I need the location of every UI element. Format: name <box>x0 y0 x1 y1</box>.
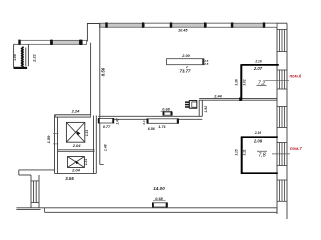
svg-text:2.07: 2.07 <box>253 66 263 71</box>
svg-text:3.11: 3.11 <box>243 149 247 155</box>
svg-text:пом.6: пом.6 <box>290 73 302 78</box>
svg-text:1.31: 1.31 <box>84 159 88 165</box>
svg-text:3.36: 3.36 <box>234 79 238 85</box>
svg-text:пом.7: пом.7 <box>290 146 302 151</box>
svg-text:14.00: 14.00 <box>153 186 165 191</box>
svg-text:10.45: 10.45 <box>178 28 188 32</box>
svg-text:0.4: 0.4 <box>142 120 146 124</box>
svg-text:1.31: 1.31 <box>85 130 89 136</box>
svg-text:1.59: 1.59 <box>46 135 51 144</box>
svg-text:8.56: 8.56 <box>100 67 105 76</box>
svg-text:2.21: 2.21 <box>32 53 37 63</box>
svg-text:2.16: 2.16 <box>254 60 261 64</box>
svg-text:1.47: 1.47 <box>115 118 119 124</box>
svg-text:3.55: 3.55 <box>65 176 74 181</box>
svg-text:2.16: 2.16 <box>254 131 261 135</box>
svg-text:1.08: 1.08 <box>13 54 17 61</box>
svg-text:3.15: 3.15 <box>235 149 239 155</box>
svg-text:2.00: 2.00 <box>181 54 190 58</box>
svg-text:1.48: 1.48 <box>104 144 108 151</box>
svg-text:0.68: 0.68 <box>155 197 163 201</box>
svg-text:3.01: 3.01 <box>242 79 246 85</box>
svg-text:73.77: 73.77 <box>180 68 192 73</box>
svg-text:0.5: 0.5 <box>204 62 208 66</box>
svg-text:1.92: 1.92 <box>204 106 208 113</box>
svg-text:2.04: 2.04 <box>71 168 81 173</box>
svg-text:1.71: 1.71 <box>158 125 165 129</box>
svg-text:2.24: 2.24 <box>71 108 81 113</box>
svg-text:2.04: 2.04 <box>72 143 82 148</box>
svg-text:2.09: 2.09 <box>253 139 263 144</box>
svg-text:0.68: 0.68 <box>162 107 170 111</box>
svg-text:7,8: 7,8 <box>258 152 265 158</box>
svg-text:0.77: 0.77 <box>103 125 111 129</box>
svg-text:2.44: 2.44 <box>213 94 222 98</box>
svg-text:6.56: 6.56 <box>148 127 156 131</box>
